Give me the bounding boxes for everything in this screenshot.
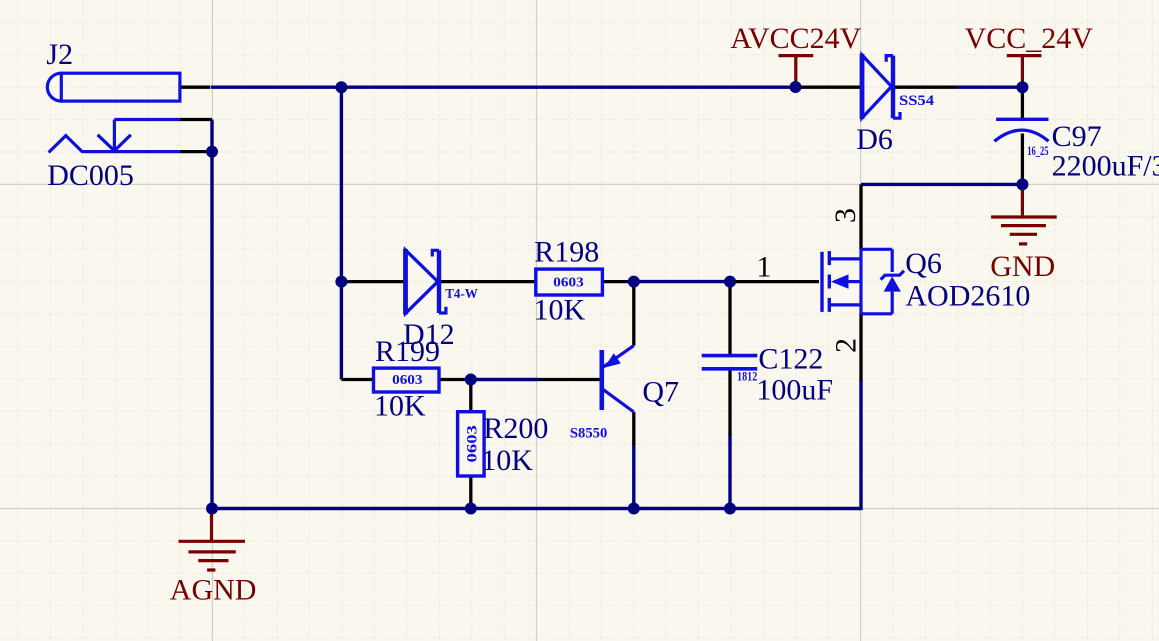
svg-text:1: 1 xyxy=(757,251,772,284)
svg-text:AOD2610: AOD2610 xyxy=(905,280,1030,313)
svg-text:T4-W: T4-W xyxy=(445,287,478,302)
svg-text:Q6: Q6 xyxy=(905,247,942,280)
svg-text:10K: 10K xyxy=(534,293,586,326)
svg-text:AVCC24V: AVCC24V xyxy=(730,22,861,55)
svg-text:2200uF/35V: 2200uF/35V xyxy=(1052,149,1159,182)
svg-text:0603: 0603 xyxy=(392,373,422,388)
svg-text:10K: 10K xyxy=(481,444,533,477)
svg-text:VCC_24V: VCC_24V xyxy=(965,22,1094,55)
svg-text:0603: 0603 xyxy=(465,425,481,462)
svg-text:C97: C97 xyxy=(1052,120,1102,153)
svg-text:1812: 1812 xyxy=(737,368,757,383)
svg-text:GND: GND xyxy=(990,250,1055,283)
svg-text:S8550: S8550 xyxy=(570,426,607,442)
svg-text:D6: D6 xyxy=(856,123,893,156)
svg-text:10K: 10K xyxy=(374,389,426,422)
svg-text:3: 3 xyxy=(829,208,862,223)
svg-text:R199: R199 xyxy=(375,335,440,368)
svg-text:R200: R200 xyxy=(483,412,548,445)
svg-text:DC005: DC005 xyxy=(47,159,134,192)
svg-text:C122: C122 xyxy=(758,342,823,375)
svg-text:0603: 0603 xyxy=(553,276,583,291)
svg-text:J2: J2 xyxy=(46,38,73,71)
svg-text:16_25: 16_25 xyxy=(1027,143,1049,158)
svg-text:AGND: AGND xyxy=(170,573,257,606)
svg-text:2: 2 xyxy=(830,338,863,353)
svg-text:R198: R198 xyxy=(534,236,599,269)
svg-text:Q7: Q7 xyxy=(642,376,679,409)
svg-text:100uF: 100uF xyxy=(756,374,833,407)
svg-text:SS54: SS54 xyxy=(899,93,935,109)
